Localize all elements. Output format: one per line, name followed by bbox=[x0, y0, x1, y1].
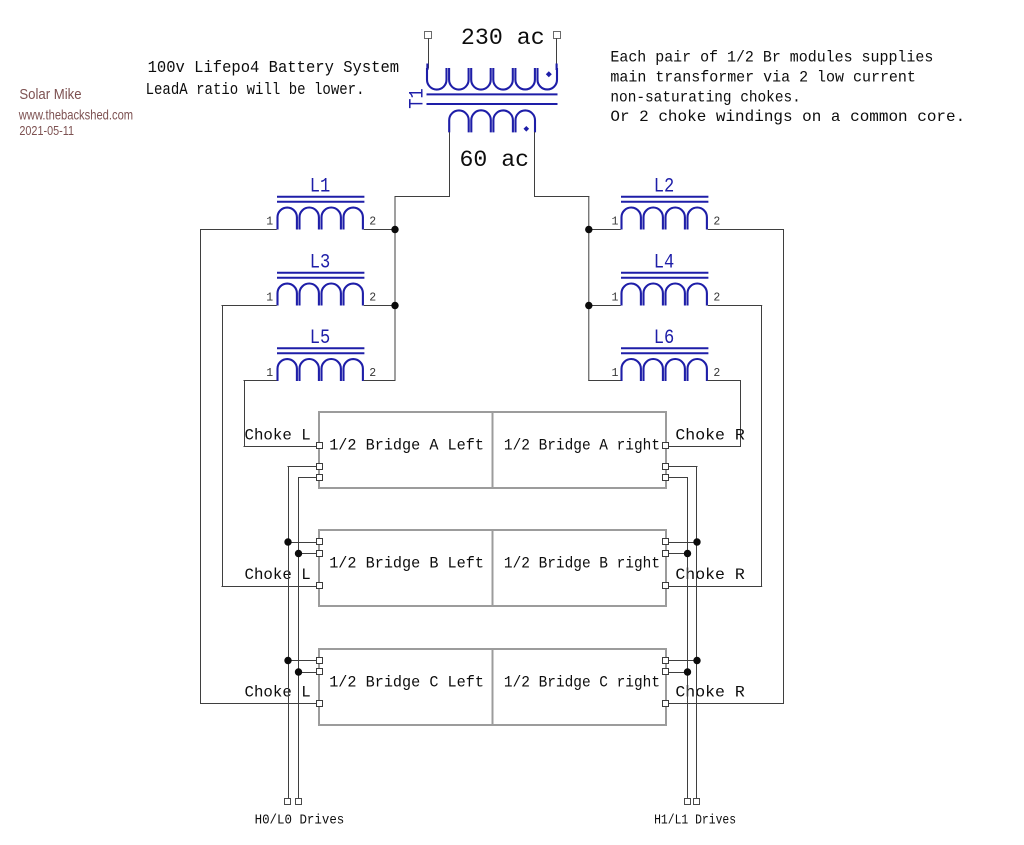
junction left column / L3 bbox=[391, 302, 398, 309]
svg-text:L4: L4 bbox=[654, 251, 675, 274]
inductor L5 core bars bbox=[277, 348, 364, 353]
wire bus stub A left top bbox=[288, 466, 320, 468]
inductor L4 core bars bbox=[621, 273, 708, 278]
svg-text:non-saturating chokes.: non-saturating chokes. bbox=[610, 88, 800, 106]
wire L1 column down bbox=[200, 229, 202, 704]
half-bridge module pair C box bbox=[319, 649, 666, 725]
wire bus stub B right bottom bbox=[666, 553, 689, 555]
svg-text:1/2 Bridge C right: 1/2 Bridge C right bbox=[504, 674, 660, 692]
inductor L6 core bars bbox=[621, 348, 708, 353]
wire left outer drive bus bbox=[288, 466, 290, 798]
svg-text:2021-05-11: 2021-05-11 bbox=[19, 123, 74, 138]
junction left outer bus / bridge C bbox=[284, 657, 291, 664]
wire L-left pin2 to node y=305.5 bbox=[364, 305, 396, 307]
inductor L3 winding bbox=[278, 284, 363, 306]
transformer T1 core bbox=[427, 94, 558, 104]
pin bridge B left edge y=586 bbox=[317, 583, 323, 589]
half-bridge module pair B box bbox=[319, 530, 666, 606]
wire secondary right drop bbox=[534, 132, 536, 197]
terminal H1 drive right bbox=[685, 799, 691, 805]
half-bridge B divider bbox=[492, 530, 494, 606]
terminal primary left bbox=[425, 32, 432, 39]
transformer T1 primary winding bbox=[427, 64, 557, 90]
wire right inner drive bus bbox=[687, 477, 689, 798]
svg-text:H1/L1 Drives: H1/L1 Drives bbox=[654, 813, 736, 829]
svg-text:1/2 Bridge A Left: 1/2 Bridge A Left bbox=[329, 437, 484, 455]
wire L-left pin2 to node y=229.5 bbox=[364, 229, 396, 231]
wire L-left pin2 to node y=381.0 bbox=[364, 380, 396, 382]
wire right outer drive bus bbox=[696, 466, 698, 798]
svg-text:T1: T1 bbox=[407, 88, 430, 109]
inductor L2 winding bbox=[622, 207, 707, 229]
wire L3 pin1 out bbox=[222, 305, 277, 307]
wire L6 pin2 out bbox=[708, 380, 741, 382]
svg-text:2: 2 bbox=[713, 215, 720, 228]
terminal H0 drive left bbox=[285, 799, 291, 805]
wire secondary left drop bbox=[449, 132, 451, 197]
wire L1 pin1 out bbox=[200, 229, 276, 231]
junction right column / L4 bbox=[585, 302, 592, 309]
wire L2 column down bbox=[783, 229, 785, 704]
svg-text:L6: L6 bbox=[654, 327, 675, 350]
svg-text:1/2 Bridge B Left: 1/2 Bridge B Left bbox=[329, 555, 484, 573]
terminal primary right bbox=[554, 32, 561, 39]
svg-text:1/2 Bridge C Left: 1/2 Bridge C Left bbox=[329, 674, 484, 692]
svg-text:1/2 Bridge B right: 1/2 Bridge B right bbox=[504, 555, 660, 573]
wire L-right pin1 to node y=305.5 bbox=[588, 305, 620, 307]
junction left inner bus / bridge B bbox=[295, 550, 302, 557]
pin bridge A right edge y=466.5 bbox=[663, 464, 669, 470]
wire L3 to bridge B choke pin bbox=[222, 586, 320, 588]
pin bridge A left edge y=477.5 bbox=[317, 475, 323, 481]
svg-text:LeadA ratio will be lower.: LeadA ratio will be lower. bbox=[146, 81, 365, 100]
svg-text:2: 2 bbox=[713, 291, 720, 304]
pin bridge C right edge y=672 bbox=[663, 669, 669, 675]
wire bus stub C right top bbox=[666, 660, 698, 662]
wire L5 to bridge A choke pin bbox=[244, 446, 320, 448]
svg-text:L3: L3 bbox=[310, 251, 331, 274]
svg-text:2: 2 bbox=[369, 291, 376, 304]
svg-text:2: 2 bbox=[369, 367, 376, 380]
inductor L4 winding bbox=[622, 284, 707, 306]
inductor L5 winding bbox=[278, 359, 363, 381]
wire primary right lead bbox=[556, 38, 558, 68]
pin bridge C right edge y=660.5 bbox=[663, 658, 669, 664]
svg-text:100v Lifepo4 Battery System: 100v Lifepo4 Battery System bbox=[148, 59, 400, 78]
wire L4 pin2 out bbox=[708, 305, 763, 307]
wire L-right pin1 to node y=381.0 bbox=[588, 380, 620, 382]
wire L5 column down bbox=[244, 381, 246, 447]
inductor L6 winding bbox=[622, 359, 707, 381]
pin bridge C left edge y=660.5 bbox=[317, 658, 323, 664]
junction right outer bus / bridge B bbox=[693, 538, 700, 545]
svg-text:Choke L: Choke L bbox=[245, 426, 311, 444]
pin bridge C left edge y=672 bbox=[317, 669, 323, 675]
svg-text:Or 2 choke windings on a commo: Or 2 choke windings on a common core. bbox=[610, 108, 965, 126]
junction left column / L1 bbox=[391, 226, 398, 233]
wire L1 to bridge C choke pin bbox=[200, 703, 319, 705]
svg-text:H0/L0 Drives: H0/L0 Drives bbox=[255, 813, 345, 829]
svg-text:Each pair of 1/2 Br modules su: Each pair of 1/2 Br modules supplies bbox=[610, 49, 933, 67]
wire bus stub B left bottom bbox=[298, 553, 320, 555]
wire bus stub C left bottom bbox=[298, 672, 320, 674]
svg-text:60 ac: 60 ac bbox=[460, 147, 530, 173]
wire L5 pin1 out bbox=[244, 380, 277, 382]
terminal L0 drive left bbox=[296, 799, 302, 805]
junction left outer bus / bridge B bbox=[284, 538, 291, 545]
svg-text:1: 1 bbox=[612, 291, 619, 304]
wire right distribution column bbox=[588, 196, 590, 381]
wire left distribution column bbox=[394, 196, 396, 381]
transformer T1 secondary phase dot bbox=[524, 126, 530, 132]
pin bridge A left edge y=466.5 bbox=[317, 464, 323, 470]
pin bridge B right edge y=586 bbox=[663, 583, 669, 589]
half-bridge A divider bbox=[492, 412, 494, 488]
wire L4 to bridge B choke pin bbox=[666, 586, 763, 588]
wire L-right pin1 to node y=229.5 bbox=[588, 229, 620, 231]
junction right inner bus / bridge B bbox=[684, 550, 691, 557]
wire bus stub C left top bbox=[288, 660, 320, 662]
junction left inner bus / bridge C bbox=[295, 668, 302, 675]
svg-text:1: 1 bbox=[266, 291, 273, 304]
half-bridge C divider bbox=[492, 649, 494, 725]
inductor L1 core bars bbox=[277, 197, 364, 202]
junction right outer bus / bridge C bbox=[693, 657, 700, 664]
junction right column / L2 bbox=[585, 226, 592, 233]
wire left inner drive bus bbox=[298, 477, 300, 798]
svg-text:230 ac: 230 ac bbox=[461, 25, 545, 51]
wire L6 column down bbox=[740, 381, 742, 447]
svg-text:1/2 Bridge A right: 1/2 Bridge A right bbox=[504, 437, 660, 455]
transformer T1 primary phase dot bbox=[546, 71, 552, 77]
svg-text:1: 1 bbox=[266, 367, 273, 380]
svg-text:www.thebackshed.com: www.thebackshed.com bbox=[18, 107, 133, 123]
svg-text:Choke R: Choke R bbox=[675, 566, 745, 584]
wire primary left lead bbox=[428, 38, 430, 68]
wire L6 to bridge A choke pin bbox=[666, 446, 742, 448]
svg-text:L1: L1 bbox=[310, 175, 331, 198]
terminal L1 drive right bbox=[694, 799, 700, 805]
wire L3 column down bbox=[222, 305, 224, 587]
svg-text:2: 2 bbox=[369, 215, 376, 228]
inductor L3 core bars bbox=[277, 273, 364, 278]
junction right inner bus / bridge C bbox=[684, 668, 691, 675]
svg-text:2: 2 bbox=[713, 367, 720, 380]
transformer T1 secondary winding bbox=[449, 110, 535, 132]
pin bridge A right edge y=446 bbox=[663, 443, 669, 449]
inductor L1 winding bbox=[278, 208, 363, 230]
svg-text:Choke L: Choke L bbox=[245, 684, 311, 702]
svg-text:1: 1 bbox=[266, 215, 273, 228]
svg-text:Choke R: Choke R bbox=[675, 426, 745, 444]
wire L2 pin2 out bbox=[708, 229, 784, 231]
wire secondary to left node bbox=[395, 196, 451, 198]
pin bridge A left edge y=446 bbox=[317, 443, 323, 449]
svg-text:Choke R: Choke R bbox=[675, 684, 745, 702]
wire bus stub B left top bbox=[288, 542, 320, 544]
wire bus stub A right top bbox=[666, 466, 698, 468]
svg-text:main transformer via 2 low cur: main transformer via 2 low current bbox=[610, 68, 916, 86]
wire bus stub A right bottom bbox=[666, 477, 689, 479]
inductor L2 core bars bbox=[621, 197, 708, 202]
pin bridge A right edge y=477.5 bbox=[663, 475, 669, 481]
svg-text:L2: L2 bbox=[654, 175, 675, 198]
pin bridge B right edge y=542 bbox=[663, 539, 669, 545]
pin bridge B left edge y=553.5 bbox=[317, 551, 323, 557]
pin bridge C right edge y=703.5 bbox=[663, 701, 669, 707]
svg-text:1: 1 bbox=[612, 367, 619, 380]
wire L4 column down bbox=[761, 305, 763, 587]
half-bridge module pair A box bbox=[319, 412, 666, 488]
svg-text:L5: L5 bbox=[310, 327, 331, 350]
wire L2 to bridge C choke pin bbox=[666, 703, 784, 705]
svg-text:Solar Mike: Solar Mike bbox=[19, 86, 81, 103]
wire bus stub A left bottom bbox=[298, 477, 320, 479]
pin bridge B right edge y=553.5 bbox=[663, 551, 669, 557]
wire secondary to right node bbox=[534, 196, 589, 198]
svg-text:1: 1 bbox=[612, 215, 619, 228]
svg-text:Choke L: Choke L bbox=[245, 566, 311, 584]
pin bridge B left edge y=542 bbox=[317, 539, 323, 545]
wire bus stub B right top bbox=[666, 542, 698, 544]
wire bus stub C right bottom bbox=[666, 672, 689, 674]
pin bridge C left edge y=703.5 bbox=[317, 701, 323, 707]
